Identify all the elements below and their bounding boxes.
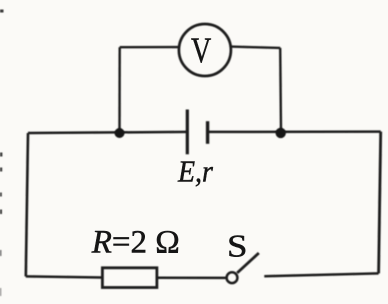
svg-text:S: S xyxy=(227,229,247,264)
wire: top main right segment (battery to right corner) xyxy=(208,130,381,133)
wire: voltmeter branch right vertical xyxy=(279,48,282,132)
wire: switch to resistor xyxy=(157,277,226,280)
wire: voltmeter branch left vertical xyxy=(118,47,121,132)
wire: voltmeter branch top-left horizontal xyxy=(120,46,179,49)
resistor R body xyxy=(102,268,156,288)
left-edge scan artifact mark 4 xyxy=(0,193,2,197)
wire: top main left segment (left corner to battery) xyxy=(28,132,187,133)
wire: right vertical xyxy=(379,132,381,274)
left-edge scan artifact mark 5 xyxy=(0,210,2,215)
svg-text:E,r: E,r xyxy=(177,155,213,189)
left-edge scan artifact mark 1 xyxy=(0,10,4,13)
switch S lever xyxy=(237,253,259,273)
svg-text:V: V xyxy=(191,30,211,70)
node dot left junction xyxy=(115,128,125,138)
node dot right junction xyxy=(276,128,286,138)
voltmeter V circle xyxy=(179,24,231,76)
battery E,r long plate xyxy=(186,110,189,155)
wire: resistor to bottom-left corner xyxy=(26,276,103,277)
left-edge scan artifact mark 2 xyxy=(0,153,2,157)
switch S contact circle xyxy=(227,272,238,283)
wire: left vertical xyxy=(26,133,28,276)
svg-text:R=2 Ω: R=2 Ω xyxy=(91,225,180,261)
left-edge scan artifact mark 7 xyxy=(0,288,1,296)
left-edge scan artifact mark 3 xyxy=(0,168,2,172)
wire: voltmeter branch top-right horizontal xyxy=(231,47,281,48)
wire: bottom right segment (right corner to switch) xyxy=(264,273,378,276)
left-edge scan artifact mark 6 xyxy=(0,250,1,256)
battery E,r short plate xyxy=(206,121,209,144)
